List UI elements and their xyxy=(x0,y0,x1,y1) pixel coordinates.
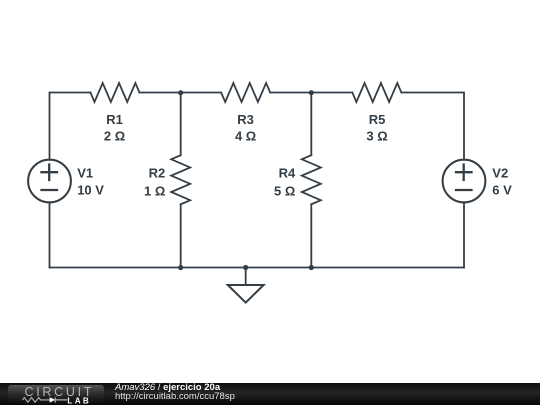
V1 minus sign xyxy=(42,189,58,191)
voltage source V1 circle xyxy=(28,160,71,203)
voltage source V2 circle xyxy=(443,160,486,203)
wire top-right from R5 to V2 xyxy=(401,93,464,160)
resistor R5 xyxy=(352,83,401,102)
svg-text:R2: R2 xyxy=(149,165,166,180)
svg-text:R5: R5 xyxy=(369,112,386,127)
svg-text:3 Ω: 3 Ω xyxy=(366,128,387,143)
V2 plus sign xyxy=(456,165,472,181)
resistor R4 xyxy=(302,155,321,204)
svg-text:V2: V2 xyxy=(492,166,508,181)
wire bottom rail xyxy=(50,267,465,269)
svg-text:LAB: LAB xyxy=(67,396,91,405)
ground stem xyxy=(245,268,247,286)
svg-text:R3: R3 xyxy=(237,112,254,127)
junction dot bottom R2 xyxy=(178,265,183,270)
wire R3 to R5 through node B xyxy=(270,92,352,94)
CircuitLab logo mini-schematic and LAB xyxy=(22,395,94,405)
footer url line xyxy=(115,391,235,402)
svg-text:4 Ω: 4 Ω xyxy=(235,128,256,143)
logo backplate pill xyxy=(8,385,104,405)
svg-text:V1: V1 xyxy=(77,166,93,181)
node B junction dot xyxy=(309,90,314,95)
resistor R1 xyxy=(90,83,139,102)
wire R2 to bottom rail xyxy=(180,204,182,267)
wire V2 to bottom rail xyxy=(463,202,465,267)
V2 minus sign xyxy=(456,189,472,191)
resistor R2 xyxy=(171,155,190,204)
svg-text:R1: R1 xyxy=(106,112,123,127)
svg-text:1 Ω: 1 Ω xyxy=(144,183,165,198)
svg-text:6 V: 6 V xyxy=(492,182,512,197)
logo diode xyxy=(50,397,56,402)
wire R4 to bottom rail xyxy=(310,204,312,267)
svg-text:R4: R4 xyxy=(279,165,296,180)
wire top-left from V1 to R1 xyxy=(50,93,91,160)
wire V1 to bottom rail xyxy=(49,202,51,267)
logo resistor squiggle xyxy=(23,397,50,402)
junction dot bottom R4 xyxy=(309,265,314,270)
wire R1 to R3 through node A xyxy=(140,92,222,94)
junction dot bottom ground xyxy=(243,265,248,270)
svg-text:10 V: 10 V xyxy=(77,182,104,197)
svg-text:2 Ω: 2 Ω xyxy=(104,128,125,143)
resistor R3 xyxy=(221,83,270,102)
CircuitLab logo wordmark xyxy=(25,385,95,399)
svg-text:5 Ω: 5 Ω xyxy=(274,183,295,198)
ground triangle xyxy=(228,285,264,303)
footer bar xyxy=(0,383,540,405)
V1 plus sign xyxy=(42,165,58,181)
node A junction dot xyxy=(178,90,183,95)
wire node A to R2 xyxy=(180,93,182,156)
footer title line xyxy=(115,382,220,393)
wire node B to R4 xyxy=(310,93,312,156)
